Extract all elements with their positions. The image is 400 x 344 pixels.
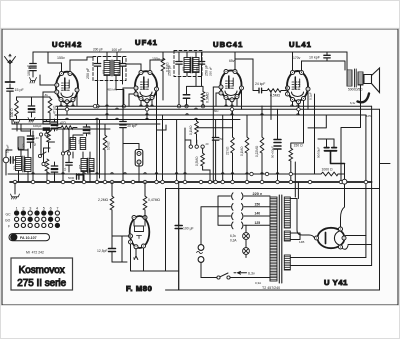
selector plug 160 [232, 204, 243, 211]
mains switch [217, 273, 230, 279]
svg-text:100 Ω: 100 Ω [10, 108, 14, 117]
wire FM80 bottom legs [131, 244, 179, 271]
coil osc 1 [18, 137, 24, 149]
wire input top link [17, 97, 51, 103]
matrix row F [15, 223, 19, 227]
svg-text:1000 Ω: 1000 Ω [322, 168, 333, 172]
wire top HT line [33, 51, 347, 53]
capacitor padder [27, 130, 33, 148]
wire UF41 top pins [127, 58, 163, 71]
IFT1 primary coil [104, 61, 110, 76]
svg-text:125v: 125v [366, 114, 373, 118]
dial lamp 2 [243, 248, 250, 255]
wire lamps [245, 225, 247, 257]
wire UCH42 grid cap [48, 52, 62, 72]
coil ant LW [16, 157, 22, 182]
arrow pilot [234, 271, 247, 274]
wire HT to output transformer [346, 52, 348, 70]
svg-text:6,3v: 6,3v [230, 234, 236, 238]
resistor 150 bank [289, 144, 303, 183]
svg-text:155v: 155v [57, 56, 65, 60]
junctions IFT1 bus [96, 105, 99, 108]
svg-text:2: 2 [22, 207, 24, 211]
svg-text:50pF: 50pF [55, 125, 59, 131]
svg-text:275 II serie: 275 II serie [17, 278, 66, 289]
svg-text:10 kpF: 10 kpF [309, 56, 321, 60]
speaker flexible lead [358, 94, 370, 103]
resistor 10k mid [103, 124, 110, 182]
capacitor IFT2 sec [183, 95, 189, 107]
svg-text:0,47MΩ: 0,47MΩ [148, 198, 160, 202]
tube UY41 [315, 227, 347, 249]
svg-text:24 kpF: 24 kpF [255, 82, 265, 86]
transformer secondary rect heater [284, 231, 290, 241]
svg-text:100: 100 [78, 139, 82, 144]
switch band 2 [38, 152, 46, 166]
svg-text:22 kΩ: 22 kΩ [226, 146, 230, 155]
coil ant MW [25, 158, 31, 182]
junctions IFT2 bus [177, 105, 180, 108]
svg-text:455: 455 [78, 164, 82, 169]
coil mixer b [80, 138, 86, 150]
output transformer core [355, 69, 357, 87]
svg-text:F: F [8, 225, 10, 229]
antenna [5, 54, 16, 82]
svg-text:30 kpF: 30 kpF [127, 124, 137, 128]
resistor FM80 0,47M [143, 182, 160, 220]
svg-text:47 kΩ: 47 kΩ [53, 105, 57, 114]
svg-text:0,1µF: 0,1µF [309, 92, 313, 100]
capacitor 10kpF tone [309, 52, 330, 61]
capacitor 100uF input [175, 182, 193, 290]
wire bus left hook [57, 106, 59, 124]
svg-text:GO: GO [5, 219, 11, 223]
transformer primary winding [270, 197, 277, 281]
svg-text:150 Ω: 150 Ω [294, 144, 304, 148]
junctions node 174 [250, 172, 253, 175]
svg-text:1: 1 [16, 207, 18, 211]
wire UBC41 top to HT [235, 52, 253, 85]
svg-text:14B: 14B [299, 240, 304, 244]
wire UCH42 left pins [40, 75, 55, 124]
page bottom edge line [2, 305, 398, 307]
wire right edge verticals [366, 106, 380, 290]
svg-text:U Y41: U Y41 [324, 278, 348, 287]
svg-text:10 kΩ: 10 kΩ [107, 141, 111, 150]
resistor 47ohm [58, 121, 77, 129]
svg-text:455: 455 [92, 164, 96, 169]
wire UBC41 bottom pins [226, 90, 242, 115]
page scan tint [2, 29, 398, 305]
Kosmovox box [11, 258, 73, 290]
capacitor jack [9, 157, 16, 163]
svg-text:125: 125 [255, 221, 261, 225]
wire inner left vertical [166, 189, 179, 272]
wire UY41 right pins [290, 236, 371, 266]
wire HT winding risers [295, 162, 298, 199]
svg-text:5000: 5000 [68, 176, 75, 180]
coil IF reject b [89, 159, 94, 172]
capacitor 100pF osc [33, 120, 50, 134]
wire node line 174 left [8, 173, 316, 175]
IFT1 core [111, 60, 113, 76]
resistor 50k osc [47, 130, 51, 148]
svg-text:7: 7 [56, 207, 58, 211]
resistor 1000 [316, 168, 345, 176]
resistor 0,3M below IFT2 [201, 92, 209, 107]
IFT2 primary coil [184, 58, 190, 73]
svg-text:GC: GC [6, 213, 12, 217]
wire jack links [123, 144, 139, 183]
IFT1 tuning cap left [86, 57, 101, 80]
junctions ground bus [13, 180, 16, 183]
wire IFT2 bottoms [179, 73, 203, 107]
wire left bus b [12, 128, 110, 130]
crossover circle bus right [342, 179, 347, 184]
wire FM80 anode legs [134, 220, 145, 227]
wire heater bus 2 [56, 108, 380, 110]
svg-text:UF41: UF41 [135, 38, 158, 47]
wire UL41 screen to HT [292, 52, 294, 71]
selector plug 125 [232, 222, 243, 229]
svg-text:60v: 60v [214, 109, 219, 113]
IFT2 tuning cap right [198, 52, 208, 76]
svg-text:0,1MΩ: 0,1MΩ [189, 125, 193, 135]
svg-text:220 v: 220 v [253, 192, 263, 196]
wire heater bus 3 [55, 114, 366, 116]
wire IFT1 bottoms [98, 76, 124, 120]
svg-text:0,1: 0,1 [63, 167, 67, 171]
ground symbol left [11, 183, 20, 199]
core ant coils [23, 156, 24, 172]
svg-text:0,5MΩ: 0,5MΩ [195, 156, 199, 166]
resistor 0,22M bank [255, 106, 264, 182]
IFT1 secondary coil [114, 61, 120, 76]
svg-text:0,3A: 0,3A [230, 239, 237, 243]
badge FA 10-107 [9, 234, 50, 241]
IFT2 dashed box [174, 51, 202, 77]
svg-text:140: 140 [255, 212, 261, 216]
svg-text:100: 100 [68, 139, 72, 144]
capacitor left low [51, 162, 57, 182]
svg-text:250 pF: 250 pF [86, 67, 90, 79]
matrix row GO [15, 217, 19, 221]
capacitor aerial trim [28, 103, 37, 122]
wire IFT2 tops [187, 52, 196, 58]
svg-text:455: 455 [195, 66, 199, 71]
tube UL41 [286, 71, 311, 104]
tube FM80 [129, 216, 150, 249]
svg-text:UBC41: UBC41 [213, 40, 243, 49]
resistor aerial 100ohm [10, 97, 20, 124]
resistor 0,1M mid [189, 119, 198, 143]
resistor 22k [226, 111, 235, 182]
svg-text:6: 6 [50, 207, 52, 211]
svg-text:50/50µF: 50/50µF [317, 147, 321, 158]
capacitor 30kpF [120, 111, 138, 182]
tube UF41 [134, 71, 159, 103]
wire UY41 cathode up [341, 164, 345, 228]
dial lamp 1 [243, 233, 250, 240]
wire IFT1 tops [107, 52, 117, 61]
svg-text:5: 5 [43, 207, 45, 211]
jack aerial [3, 144, 9, 175]
resistor 0,1M bank [240, 115, 249, 182]
wire UCH42 bottom pins [61, 92, 77, 115]
svg-text:FI: FI [12, 236, 15, 240]
wire grid return UL41 [270, 91, 272, 120]
IFT2 tuning cap left [168, 52, 183, 76]
svg-text:250: 250 [33, 108, 37, 113]
output transformer primary [347, 70, 352, 86]
pickup socket top [198, 245, 204, 251]
svg-text:170v: 170v [293, 56, 301, 60]
wire UL41 top anode line [302, 61, 346, 71]
resistor left low [45, 159, 49, 182]
junctions heater bus [65, 108, 68, 111]
svg-text:UL41: UL41 [289, 40, 312, 49]
svg-text:Kosmovox: Kosmovox [19, 265, 65, 276]
transformer core [279, 195, 282, 283]
svg-text:50+50µF: 50+50µF [271, 146, 275, 158]
capacitor 100pF top left [27, 52, 36, 77]
wire selector stem [201, 207, 218, 245]
svg-text:6,3v: 6,3v [248, 272, 255, 276]
svg-text:15 pF: 15 pF [15, 88, 25, 92]
svg-text:UCH42: UCH42 [52, 40, 82, 49]
wire UL41 grid [286, 88, 288, 92]
wire power box outline [166, 189, 380, 291]
svg-text:F. M80: F. M80 [126, 284, 152, 293]
svg-text:200: 200 [13, 165, 17, 170]
wire HT to UY41 plate [290, 199, 314, 239]
switch band 1 [39, 130, 51, 136]
svg-text:T2 457/240: T2 457/240 [262, 286, 280, 290]
svg-text:150: 150 [255, 202, 261, 206]
svg-text:0,22MΩ: 0,22MΩ [255, 145, 259, 157]
capacitor mid 69 [66, 163, 72, 168]
svg-text:100 pF: 100 pF [112, 48, 123, 52]
svg-text:65v: 65v [229, 59, 235, 63]
wire right stub 163 [380, 163, 391, 165]
coil mixer a [70, 138, 76, 150]
svg-text:455: 455 [117, 69, 121, 74]
svg-text:-8v: -8v [44, 93, 48, 97]
speaker driver [364, 75, 372, 84]
voltage selector rail [218, 196, 270, 225]
IFT1 tuning cap right [119, 57, 125, 79]
svg-text:250 pF: 250 pF [168, 64, 172, 76]
pickup squiggle [197, 251, 203, 253]
svg-text:100 pF: 100 pF [27, 64, 31, 76]
svg-text:100: 100 [22, 143, 26, 148]
resistor 0,5M PU [195, 148, 210, 182]
wire left section links [6, 120, 55, 163]
capacitor 250pF mid [212, 128, 223, 182]
IFT2 core [191, 57, 192, 73]
matrix row GC [15, 211, 19, 215]
svg-text:MI 472 242: MI 472 242 [26, 251, 44, 255]
svg-text:100 µF: 100 µF [183, 227, 194, 231]
wire secondary to bus [360, 85, 362, 128]
switch wafer mid [61, 150, 70, 155]
svg-text:200 pF: 200 pF [93, 48, 103, 52]
svg-text:3: 3 [29, 207, 31, 211]
capacitor 5000pF bottom [68, 174, 79, 180]
tube UCH42 [55, 72, 79, 104]
resistor 0,5M coupling [267, 89, 286, 98]
svg-text:4: 4 [36, 207, 38, 211]
svg-text:455: 455 [182, 66, 186, 71]
svg-text:455: 455 [102, 69, 106, 74]
svg-text:0,3A: 0,3A [255, 281, 261, 285]
wire socket to switch [201, 262, 217, 277]
wire transformer heater taps [290, 233, 300, 240]
wire UF41 bottom pins [141, 91, 157, 115]
wire UL41 cathode to 150 [291, 101, 304, 147]
wire caps thick L [331, 152, 345, 164]
terminals PU [189, 145, 204, 148]
wire ground bus [10, 181, 372, 183]
wire left verticals to ground [33, 120, 100, 182]
wire UBC41 left pins [213, 87, 219, 106]
resistor screen UF41 [161, 52, 169, 100]
wire heater bus 1 [56, 105, 372, 107]
jack connector mid [135, 150, 143, 167]
speaker cone [372, 68, 380, 93]
core reject [88, 158, 89, 173]
svg-text:100: 100 [22, 165, 26, 170]
capacitor 500pF [83, 124, 91, 136]
capacitor 50uF b [332, 139, 337, 148]
svg-text:250 pF: 250 pF [209, 66, 213, 76]
svg-text:47Ω: 47Ω [60, 121, 67, 125]
wire FM80 grid [112, 236, 131, 262]
transformer secondary heaters [284, 255, 290, 270]
wire UL41 bottom pins [293, 91, 309, 115]
selector plug 220 [232, 193, 243, 200]
svg-text:2,2MΩ: 2,2MΩ [98, 198, 109, 202]
svg-text:FA 10-107: FA 10-107 [20, 236, 37, 240]
wire caps top link [318, 138, 334, 140]
wire UF41 left pins [123, 88, 134, 111]
svg-text:500 pF: 500 pF [88, 125, 92, 135]
svg-text:0,1MΩ: 0,1MΩ [240, 146, 244, 156]
capacitor FM80 12,5pF [97, 249, 127, 263]
resistor FM80 2,2M [98, 182, 114, 248]
capacitor coupling 24kpF [253, 82, 267, 93]
wire left bus a [12, 123, 160, 125]
pickup socket bottom [198, 257, 204, 263]
capacitor 50uF common plate [325, 150, 337, 152]
wire mid verticals [147, 109, 223, 182]
svg-text:6,3v: 6,3v [350, 101, 356, 105]
tube UBC41 [219, 70, 244, 102]
wire switch to transformer [230, 278, 270, 282]
svg-text:0,5MΩ: 0,5MΩ [270, 94, 281, 98]
svg-text:100pF: 100pF [33, 124, 42, 128]
IFT2 secondary coil [193, 58, 199, 73]
wire grid stopper UBC41 [197, 87, 233, 128]
wire UCH42 anode top [70, 57, 93, 72]
wire right drops [308, 94, 361, 182]
svg-text:0,3MΩ: 0,3MΩ [206, 92, 210, 103]
svg-text:12,5pF: 12,5pF [97, 249, 108, 253]
capacitor 50+50 bank [271, 109, 282, 182]
output transformer secondary [358, 72, 363, 85]
resistor osc grid 47k [48, 98, 56, 124]
wire AVC line [10, 119, 240, 121]
capacitor 50uF a [324, 139, 329, 148]
coil IF reject a [81, 159, 87, 172]
IFT1 dashed box [93, 57, 126, 81]
capacitor pad 2 [51, 119, 57, 131]
svg-text:455 kHz: 455 kHz [107, 88, 118, 92]
page top edge line [1, 28, 399, 30]
transformer secondary HT [284, 197, 290, 228]
capacitor antenna 15pF [7, 84, 25, 119]
svg-text:3-30: 3-30 [34, 136, 40, 140]
selector plug 140 [232, 213, 243, 220]
ground marks below 100pF [30, 78, 37, 84]
